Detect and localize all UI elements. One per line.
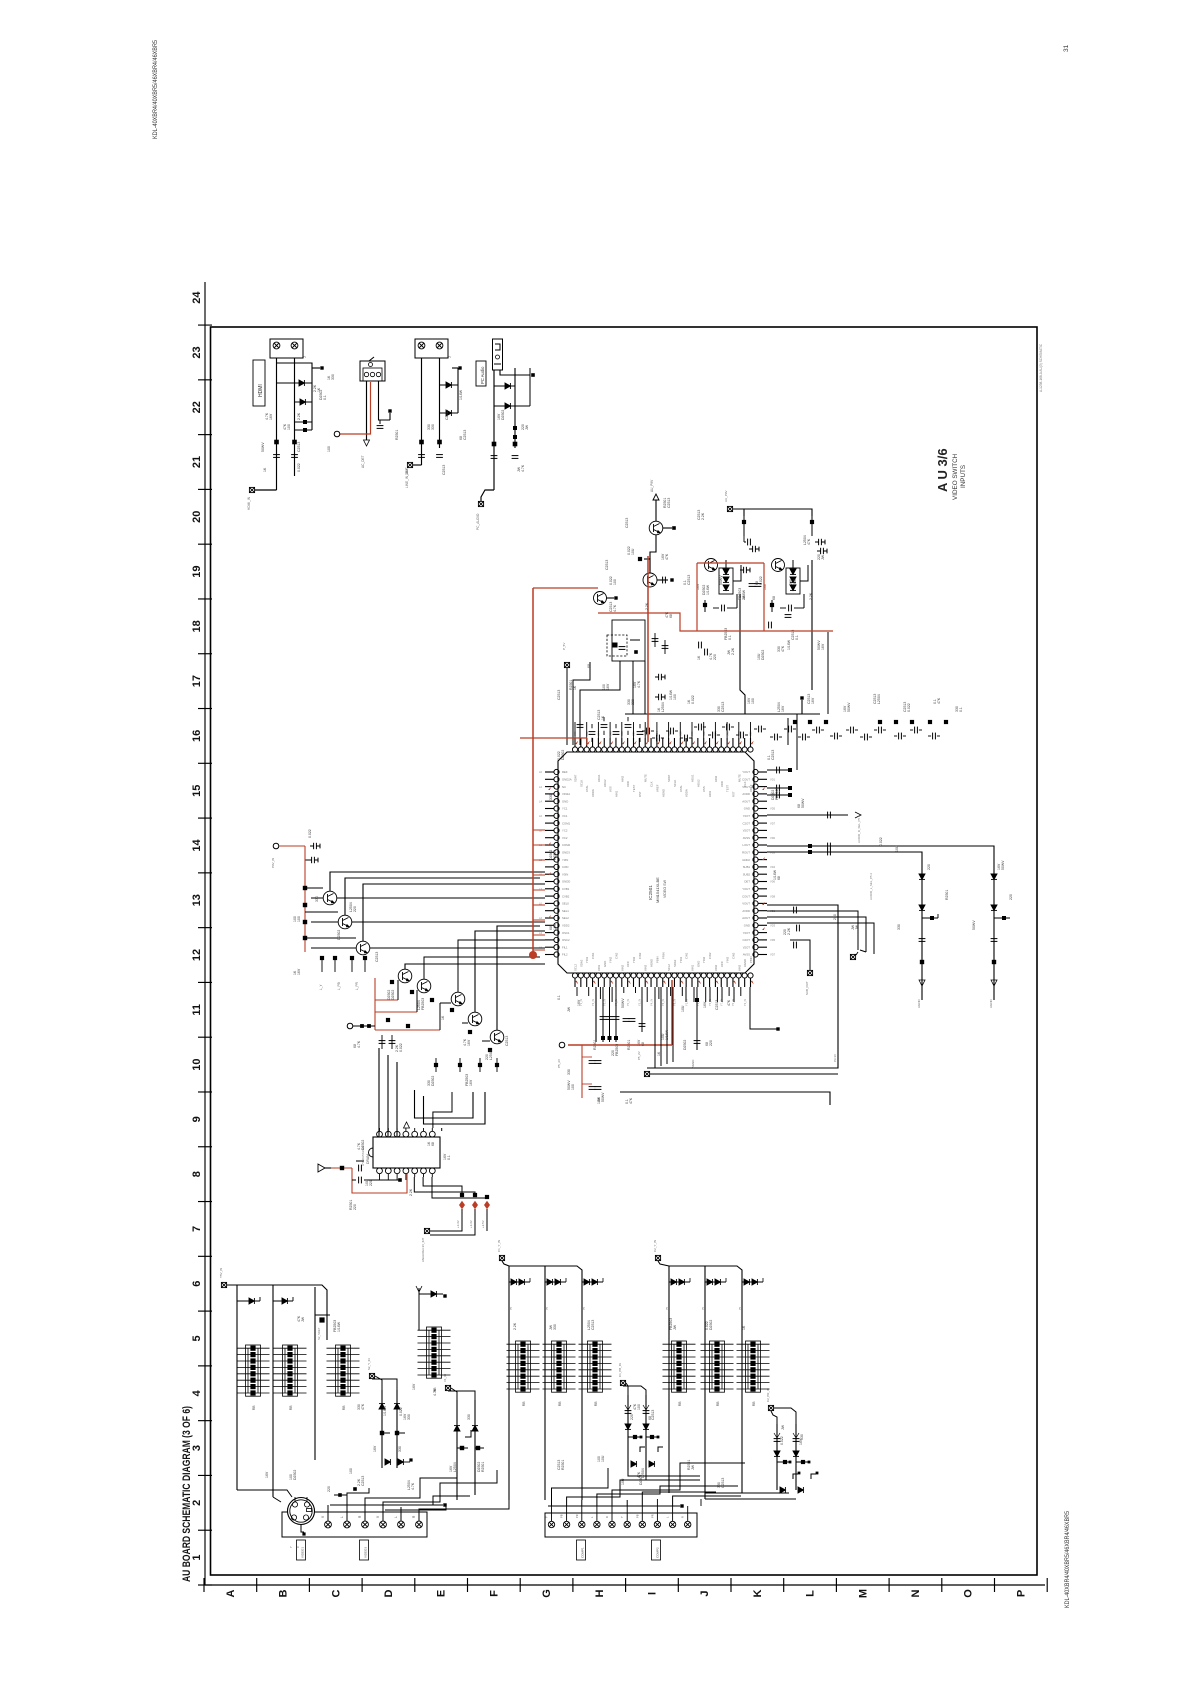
svg-text:100: 100: [637, 1404, 641, 1410]
svg-text:L2504: L2504: [661, 702, 665, 712]
svg-text:VDDA: VDDA: [591, 789, 595, 797]
interstage resistors: [390, 980, 394, 984]
wire PC R rail: [500, 370, 530, 375]
svg-text:JW: JW: [855, 924, 859, 930]
svg-text:4.7K: 4.7K: [411, 1482, 415, 1490]
terminal HDMI_L: [249, 487, 254, 492]
red wire IC2502 loop: [352, 1168, 407, 1193]
svg-text:SDAT: SDAT: [574, 774, 578, 782]
svg-text:SUB1: SUB1: [743, 865, 751, 869]
svg-text:COM2: COM2: [562, 843, 571, 847]
transistor Q2510: [490, 1030, 504, 1044]
svg-text:C2513: C2513: [651, 1410, 655, 1420]
svg-text:NC: NC: [562, 785, 566, 789]
svg-text:L: L: [340, 1516, 344, 1518]
feed caps block B: [744, 509, 812, 516]
svg-text:O: O: [963, 1589, 975, 1598]
svg-text:1K: 1K: [573, 685, 577, 690]
svg-text:Y0_IN: Y0_IN: [731, 999, 735, 1006]
svg-text:XTAL: XTAL: [585, 785, 589, 792]
svg-text:15: 15: [191, 785, 203, 797]
svg-text:0.022: 0.022: [879, 837, 883, 846]
svg-text:4.7K: 4.7K: [637, 680, 641, 688]
svg-text:RB: RB: [252, 1405, 256, 1410]
transistor Q2507: [417, 979, 431, 993]
svg-text:SUB2: SUB2: [743, 872, 751, 876]
IC2501 bottom pin row (pins 28..60): [572, 973, 577, 978]
svg-text:L2504: L2504: [489, 1050, 493, 1060]
svg-text:COUT: COUT: [742, 894, 750, 898]
extra caps left part of row above IC: [577, 725, 584, 728]
svg-text:D2502: D2502: [683, 1040, 687, 1050]
red feed wire: [279, 845, 305, 847]
svg-text:C2513: C2513: [557, 690, 561, 700]
capacitor C2506: [436, 455, 443, 458]
diode D2506: [494, 405, 515, 407]
diode D2543: [418, 1288, 420, 1330]
decoupling capacitor row above IC2501: [647, 728, 650, 735]
svg-text:R2501: R2501: [395, 430, 399, 440]
svg-text:PC Audio: PC Audio: [480, 366, 485, 384]
stair wires above row1: [330, 1504, 443, 1506]
svg-text:330: 330: [315, 896, 319, 902]
svg-text:47K: 47K: [727, 999, 731, 1006]
svg-text:YIN3: YIN3: [726, 956, 730, 963]
svg-text:VOUT: VOUT: [742, 785, 750, 789]
svg-text:XTAL: XTAL: [679, 785, 683, 792]
svg-text:50WV: 50WV: [719, 575, 723, 585]
svg-text:CVB2: CVB2: [562, 894, 570, 898]
wires rails into DIN: [237, 1490, 292, 1497]
diode pair B2: [545, 1281, 566, 1283]
svg-text:100: 100: [571, 1084, 575, 1090]
svg-text:FB2503: FB2503: [775, 788, 779, 800]
svg-text:AGND: AGND: [743, 959, 747, 967]
svg-text:J: J: [303, 356, 307, 358]
svg-text:MM1541XLBE: MM1541XLBE: [655, 877, 660, 903]
zener diodes S-D: [774, 1451, 780, 1456]
svg-text:YIN3: YIN3: [632, 956, 636, 963]
svg-text:L: L: [666, 1516, 670, 1518]
connector: [270, 339, 303, 358]
svg-text:0.1: 0.1: [959, 707, 963, 712]
svg-text:C2513: C2513: [667, 498, 671, 508]
red wire to CN2502: [340, 382, 371, 434]
svg-text:CLK: CLK: [650, 781, 654, 787]
svg-text:FIL2: FIL2: [562, 953, 568, 957]
svg-text:50WV: 50WV: [621, 998, 625, 1008]
svg-text:16V: 16V: [703, 1001, 707, 1008]
svg-text:RB: RB: [289, 1405, 293, 1410]
svg-text:16V: 16V: [821, 643, 825, 650]
resistors S-D: [783, 1460, 787, 1464]
svg-text:C2_PR_IN: C2_PR_IN: [766, 1388, 770, 1402]
svg-text:17: 17: [191, 675, 203, 687]
wire HDMI L rail: [276, 358, 278, 490]
svg-text:R: R: [605, 1516, 609, 1518]
svg-text:68: 68: [587, 664, 591, 668]
svg-text:L2504: L2504: [453, 1462, 457, 1472]
svg-text:47K: 47K: [781, 645, 785, 652]
svg-text:68: 68: [777, 876, 781, 880]
connector box CN2802: [545, 1513, 697, 1537]
red rail buffers: [304, 846, 306, 952]
group-B top bus: [502, 1261, 582, 1276]
svg-text:4.7K: 4.7K: [433, 1388, 437, 1396]
transistor Q2513 audio switch B: [772, 559, 785, 572]
caps on red branch: [589, 1061, 596, 1064]
svg-text:7: 7: [191, 1226, 203, 1232]
svg-text:220: 220: [833, 914, 837, 920]
svg-text:16V: 16V: [781, 705, 785, 712]
diode D2503: [440, 384, 459, 386]
svg-text:Y2OT: Y2OT: [743, 814, 751, 818]
bead FB2505: [419, 440, 424, 445]
svg-text:1K: 1K: [697, 655, 701, 660]
red net: switch loop: [598, 613, 833, 631]
connector CN2502 (3-pin): [360, 361, 385, 381]
capacitor C2507: [491, 456, 498, 459]
svg-text:SCLK: SCLK: [579, 780, 583, 787]
diode D2501: [277, 382, 313, 384]
svg-text:OSC2: OSC2: [562, 938, 570, 942]
svg-text:330: 330: [467, 1414, 471, 1420]
wire branch: [457, 368, 459, 413]
svg-text:A-1238-168-A AU(3) SCHEMATIC: A-1238-168-A AU(3) SCHEMATIC: [1039, 343, 1043, 392]
svg-text:50WV: 50WV: [601, 1092, 605, 1102]
svg-text:VIN1: VIN1: [597, 964, 601, 971]
terminal below pins: [807, 970, 812, 975]
svg-text:VIN2: VIN2: [714, 964, 718, 971]
svg-text:50WV: 50WV: [1001, 860, 1005, 870]
svg-text:68: 68: [669, 614, 673, 618]
svg-text:330: 330: [800, 1434, 804, 1440]
svg-text:C: C: [330, 1589, 342, 1597]
svg-text:31: 31: [1063, 44, 1070, 52]
caps near FL2501: [652, 639, 659, 642]
svg-text:330: 330: [407, 1414, 411, 1420]
svg-text:R: R: [412, 1515, 416, 1518]
svg-text:J: J: [699, 1590, 711, 1596]
svg-text:VIN2A: VIN2A: [562, 792, 570, 796]
svg-text:18: 18: [191, 620, 203, 632]
svg-text:SUB_OUT: SUB_OUT: [805, 981, 809, 995]
svg-text:VD5: VD5: [770, 807, 776, 811]
svg-text:SDA2: SDA2: [579, 959, 583, 967]
svg-text:VD4: VD4: [770, 865, 776, 869]
svg-text:L: L: [394, 1516, 398, 1518]
resistor taps above row1: [338, 1493, 342, 1497]
bias resistors R2521-24: [303, 886, 307, 890]
red net: main vertical left of IC: [532, 588, 534, 958]
svg-text:VC1: VC1: [562, 814, 568, 818]
svg-text:COM1: COM1: [562, 821, 571, 825]
svg-text:1K: 1K: [263, 467, 267, 472]
svg-text:GND: GND: [744, 807, 750, 811]
svg-text:0.1: 0.1: [447, 1155, 451, 1160]
svg-text:16V: 16V: [577, 999, 581, 1006]
svg-text:10U: 10U: [601, 1455, 605, 1462]
rail B2: [544, 1266, 546, 1500]
svg-text:KDL-40XBR4/40XBR5/46XBR4/46XBR: KDL-40XBR4/40XBR5/46XBR4/46XBR5: [1064, 1511, 1071, 1608]
electrolytic caps S-C: [625, 1411, 632, 1414]
svg-text:0.1: 0.1: [557, 995, 561, 1000]
svg-text:HDMI_IN: HDMI_IN: [247, 496, 251, 510]
rail B1: [508, 1266, 510, 1500]
AGND arrow x994: [991, 980, 997, 986]
resistor network RB2561: [663, 1341, 696, 1392]
svg-text:0.022: 0.022: [759, 576, 763, 585]
diodes S-A: [379, 1404, 385, 1409]
svg-text:100: 100: [297, 916, 301, 922]
svg-text:PR: PR: [575, 1514, 579, 1518]
svg-text:C2OT: C2OT: [743, 938, 751, 942]
svg-text:68: 68: [641, 1042, 645, 1046]
op IC2501 video switch QFP body: [558, 752, 754, 973]
svg-text:J: J: [448, 356, 452, 358]
IC2501 left pin column (pins 1..27): [554, 769, 559, 774]
svg-text:100: 100: [751, 698, 755, 704]
diode D2502: [295, 401, 313, 403]
wire bundle from IC right pins to x838: [647, 905, 838, 1068]
svg-text:1K: 1K: [441, 1015, 445, 1020]
svg-text:V3IN: V3IN: [562, 872, 568, 876]
terminal AUDIO_L: [407, 462, 412, 467]
svg-text:D2502: D2502: [561, 750, 565, 760]
HDMI label box: [253, 360, 265, 406]
svg-text:GND2: GND2: [742, 858, 750, 862]
svg-text:JW: JW: [525, 424, 529, 430]
sub-circuit S-A : terminal: [369, 1373, 374, 1378]
svg-text:VREF: VREF: [655, 784, 659, 792]
svg-text:G: G: [541, 1589, 553, 1598]
svg-text:220: 220: [353, 1204, 357, 1210]
long wires right to cluster S-D: [645, 1470, 647, 1480]
svg-text:68: 68: [772, 596, 776, 600]
svg-text:L2504: L2504: [641, 1468, 645, 1478]
svg-text:P5_2V: P5_2V: [637, 1051, 641, 1060]
caps on right pins of IC2501: [767, 769, 790, 771]
svg-text:SEL2: SEL2: [562, 916, 569, 920]
svg-text:10U: 10U: [895, 845, 899, 852]
svg-text:C2513: C2513: [721, 1478, 725, 1488]
svg-text:330: 330: [431, 424, 435, 430]
svg-text:Y5V_IN: Y5V_IN: [219, 1268, 223, 1278]
svg-text:I: I: [646, 1592, 658, 1595]
red net: bottom horizontal under IC: [520, 737, 587, 739]
svg-text:330: 330: [897, 924, 901, 930]
S-video shield pin: [301, 1525, 304, 1533]
svg-text:TEST: TEST: [632, 785, 636, 792]
svg-text:D2502: D2502: [337, 930, 341, 940]
svg-text:VIN1: VIN1: [691, 964, 695, 971]
resistor network RB2541: [237, 1345, 270, 1396]
svg-text:L: L: [590, 1516, 594, 1518]
svg-text:C2513: C2513: [445, 410, 449, 420]
resistor row above IC2501: [793, 720, 797, 724]
svg-text:1/16W: 1/16W: [706, 584, 710, 595]
caps below switch B: [785, 615, 792, 618]
svg-text:AIN2: AIN2: [714, 775, 718, 782]
RCA jacks row 2: [548, 1521, 554, 1527]
svg-text:VIN3: VIN3: [737, 964, 741, 971]
resistor network RB2562: [701, 1341, 734, 1392]
svg-text:0.022: 0.022: [780, 1436, 784, 1445]
wires IC bottom pins to red bus: [602, 987, 604, 1042]
diodes on rail x994: [991, 874, 997, 879]
svg-text:REF: REF: [562, 770, 568, 774]
svg-text:VDD: VDD: [626, 781, 630, 787]
svg-text:CIN1: CIN1: [685, 952, 689, 959]
svg-text:+2.5V: +2.5V: [481, 1220, 485, 1228]
svg-text:ANALOG3.3V_INT: ANALOG3.3V_INT: [421, 1238, 425, 1262]
svg-text:M: M: [857, 1589, 869, 1598]
svg-text:DRAM: DRAM: [366, 1154, 370, 1164]
svg-text:YIN2: YIN2: [609, 956, 613, 963]
svg-text:16V: 16V: [606, 683, 610, 690]
svg-text:V1_IN: V1_IN: [443, 1374, 447, 1382]
cap + bead on rail x922: [919, 939, 926, 942]
stair wires above row2: [551, 1506, 553, 1521]
svg-text:K: K: [752, 1589, 764, 1597]
rail C1: [668, 1266, 670, 1493]
svg-text:RB: RB: [342, 1405, 346, 1410]
svg-text:VIDEO SWITCH: VIDEO SWITCH: [952, 453, 959, 500]
svg-text:AOUT: AOUT: [742, 799, 750, 803]
svg-text:220: 220: [709, 1040, 713, 1046]
svg-text:VD7: VD7: [770, 953, 776, 957]
svg-text:S2_SDET: S2_SDET: [317, 1327, 321, 1340]
svg-text:LINE_IN_OUT: LINE_IN_OUT: [405, 467, 409, 488]
capacitor C2508: [512, 456, 519, 459]
diode D2504: [440, 412, 459, 414]
stub resistor on rail x922: [922, 917, 938, 919]
resistor R2531: [331, 1167, 352, 1169]
svg-text:+3.3V: +3.3V: [456, 1220, 460, 1228]
svg-text:COMP1: COMP1: [581, 1547, 585, 1558]
svg-text:L2504: L2504: [877, 694, 881, 704]
svg-text:16V: 16V: [373, 1445, 377, 1452]
svg-text:5: 5: [191, 1335, 203, 1341]
svg-text:16V: 16V: [467, 1039, 471, 1046]
svg-text:RST: RST: [731, 791, 735, 797]
IC2502 top pins: [377, 1131, 383, 1137]
svg-text:75: 75: [582, 1306, 586, 1310]
transistor Q2506: [398, 969, 412, 983]
svg-text:0.022: 0.022: [399, 1043, 403, 1052]
svg-text:CVB1: CVB1: [562, 887, 570, 891]
svg-text:AIN1: AIN1: [614, 790, 618, 797]
transistor Q2502 buffer: [338, 915, 352, 929]
svg-text:Y: Y: [620, 1516, 624, 1518]
svg-text:Y2_IN: Y2_IN: [638, 999, 642, 1006]
beads at red bus: [601, 1036, 605, 1040]
resistor network RB2551: [507, 1341, 540, 1392]
svg-text:50WV: 50WV: [261, 442, 265, 452]
bead FB2508: [513, 442, 518, 447]
electrolytic caps S-D: [774, 1439, 781, 1442]
svg-text:ROUT: ROUT: [742, 851, 750, 855]
connector: [415, 339, 448, 358]
svg-text:A U 3/6: A U 3/6: [935, 448, 950, 492]
svg-text:TEST: TEST: [726, 785, 730, 792]
svg-text:MUTE: MUTE: [644, 774, 648, 782]
long wires from IC bottom pins down-left: [595, 987, 597, 1042]
svg-text:S2_Y_IN: S2_Y_IN: [367, 1358, 371, 1370]
svg-text:50WV: 50WV: [847, 702, 851, 712]
svg-text:PB: PB: [560, 1514, 564, 1518]
svg-text:D2502: D2502: [761, 650, 765, 660]
svg-text:16V: 16V: [811, 697, 815, 704]
svg-text:6: 6: [191, 1281, 203, 1287]
svg-text:22: 22: [191, 401, 203, 413]
svg-text:10: 10: [191, 1058, 203, 1070]
svg-text:Y2_IN: Y2_IN: [743, 999, 747, 1006]
svg-text:24: 24: [191, 291, 203, 304]
svg-text:47K: 47K: [361, 1403, 365, 1410]
collector wires of lower buffers to IC: [405, 964, 545, 969]
svg-text:AOU2: AOU2: [603, 779, 607, 787]
svg-text:AIN2: AIN2: [620, 775, 624, 782]
svg-text:220: 220: [630, 1414, 634, 1420]
bus wire above IC: [625, 713, 820, 715]
svg-text:AGND: AGND: [989, 998, 993, 1008]
svg-text:VDD2: VDD2: [562, 924, 570, 928]
ruler lines: [204, 282, 206, 1585]
caps below switch A: [749, 584, 756, 587]
wire CN2502 pin1: [366, 381, 368, 440]
svg-text:4.7K: 4.7K: [521, 464, 525, 472]
terminal + long wire right: [644, 1071, 649, 1076]
svg-text:C2513: C2513: [361, 1476, 365, 1486]
svg-text:Y2OT: Y2OT: [743, 931, 751, 935]
svg-text:YOUT: YOUT: [742, 887, 750, 891]
svg-text:47K: 47K: [937, 697, 941, 704]
svg-text:19: 19: [191, 565, 203, 577]
svg-text:16V: 16V: [265, 1471, 269, 1478]
vertical stubs from top pins to component row: [574, 722, 576, 738]
rail B3: [581, 1276, 583, 1500]
svg-text:AU_P9V: AU_P9V: [724, 490, 728, 502]
ferrite bead FB2501: [295, 421, 313, 423]
svg-text:VCC: VCC: [720, 961, 724, 967]
svg-text:VIN2: VIN2: [620, 964, 624, 971]
svg-text:C2513: C2513: [442, 465, 446, 475]
terminal COMP1_Y: [499, 1255, 504, 1260]
svg-text:220: 220: [369, 1180, 373, 1186]
diode pair C1: [669, 1281, 690, 1283]
svg-text:16V: 16V: [297, 968, 301, 975]
svg-text:GND: GND: [696, 961, 700, 967]
svg-text:0.022: 0.022: [691, 695, 695, 704]
extra vertical taps below IC: [685, 987, 687, 1002]
transistor Q2508: [451, 992, 465, 1006]
svg-text:16V: 16V: [597, 1097, 601, 1104]
diode pair B3: [582, 1281, 603, 1283]
svg-text:P: P: [1015, 1590, 1027, 1597]
svg-text:OSC1: OSC1: [562, 931, 570, 935]
svg-text:75: 75: [509, 1306, 513, 1310]
svg-text:IC2501: IC2501: [648, 885, 653, 900]
audio out wire with cap: [767, 814, 848, 816]
svg-text:VSS: VSS: [609, 786, 613, 792]
svg-text:P3.3V: P3.3V: [833, 1054, 837, 1062]
resistor network RB2552: [543, 1341, 576, 1392]
svg-text:CIN2: CIN2: [708, 952, 712, 959]
stub hooks: [860, 950, 866, 952]
VIDEO3 label box: [360, 1540, 369, 1560]
svg-text:VCC: VCC: [626, 961, 630, 967]
